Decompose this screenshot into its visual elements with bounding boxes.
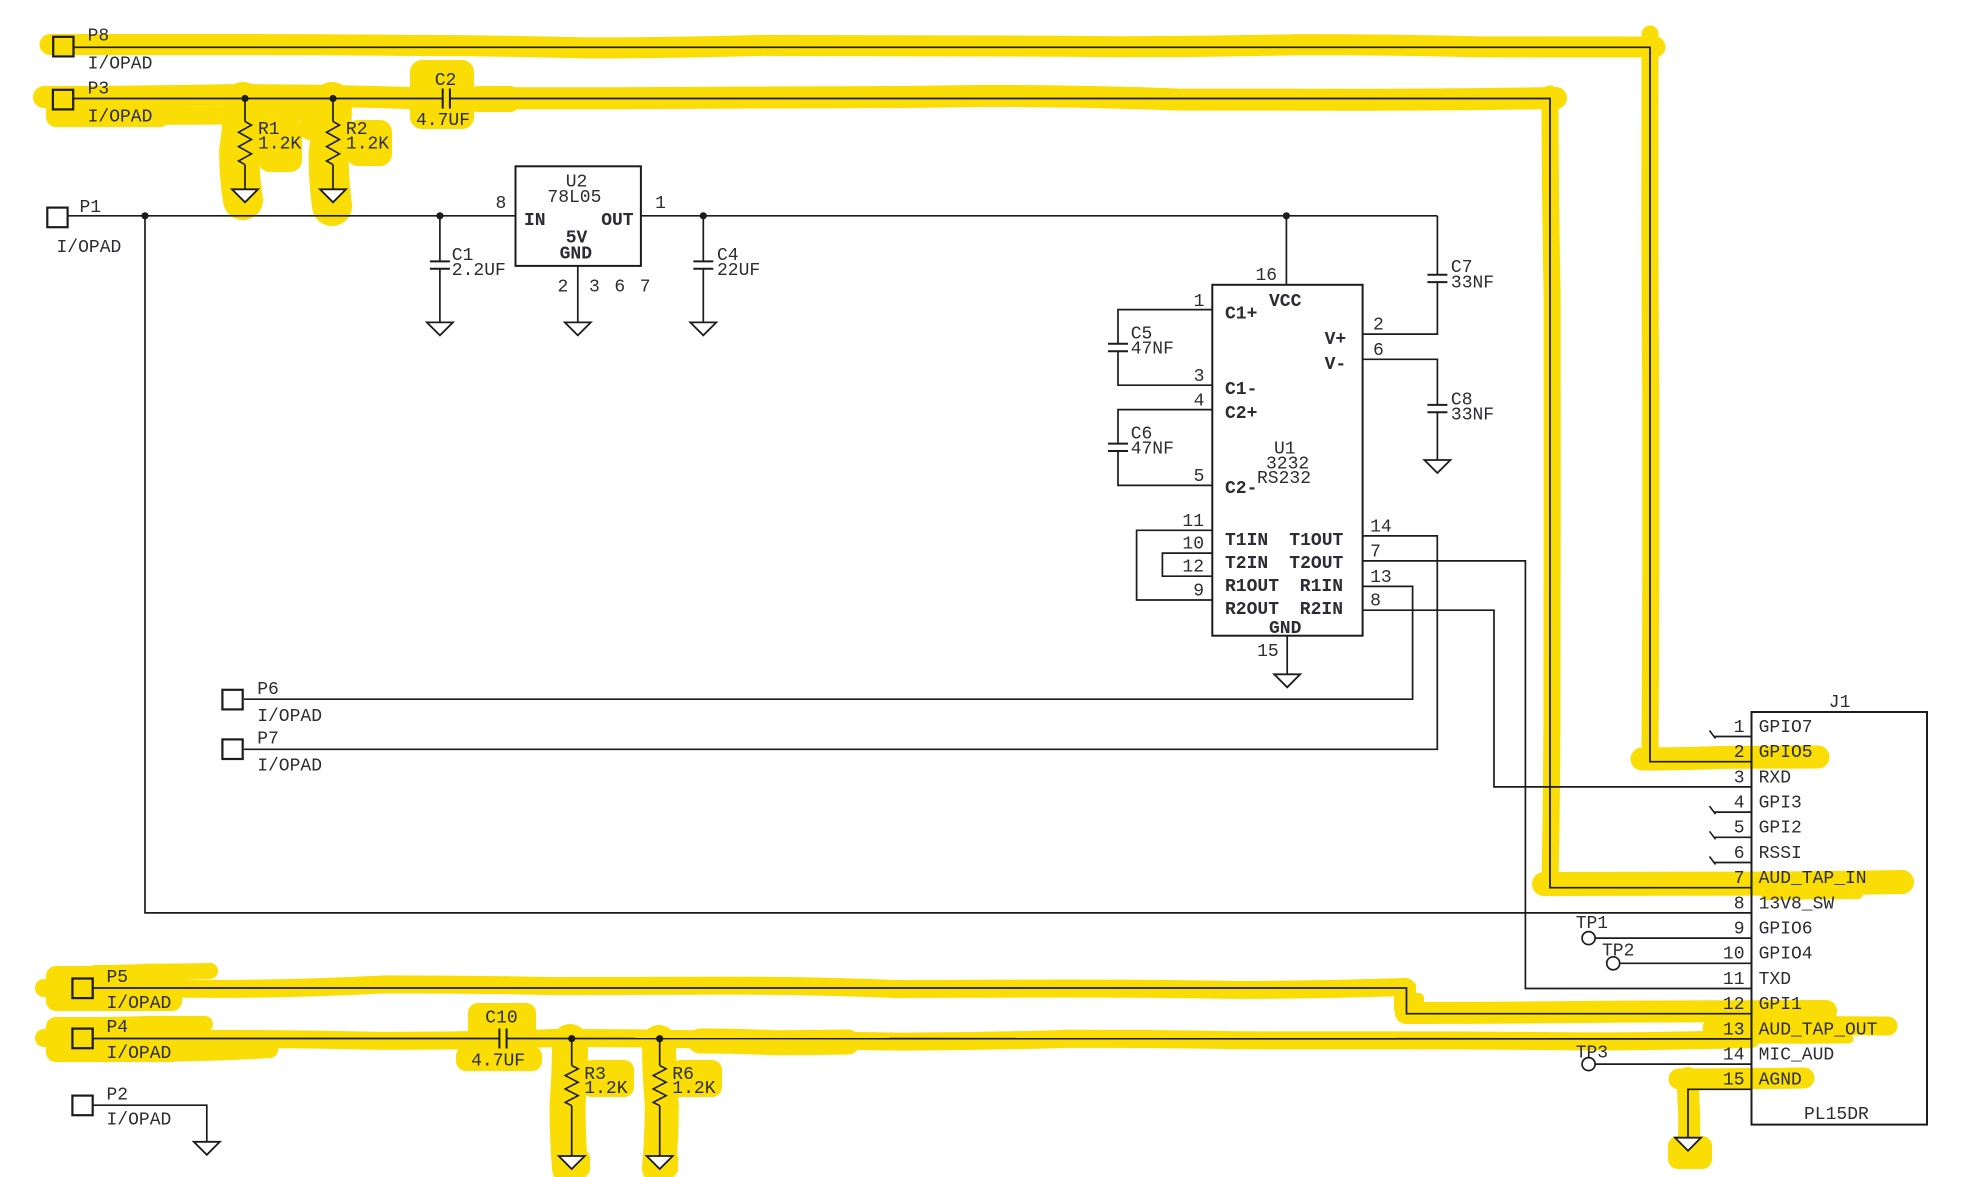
svg-text:P5: P5 (107, 968, 129, 988)
svg-text:I/OPAD: I/OPAD (88, 107, 153, 127)
svg-text:1.2K: 1.2K (346, 134, 389, 154)
svg-text:TP1: TP1 (1576, 914, 1608, 934)
svg-text:GPI1: GPI1 (1759, 995, 1802, 1015)
svg-text:47NF: 47NF (1131, 340, 1174, 360)
svg-text:R2IN: R2IN (1300, 600, 1343, 620)
svg-text:RS232: RS232 (1257, 469, 1311, 489)
svg-text:6: 6 (614, 277, 625, 297)
svg-text:OUT: OUT (601, 211, 634, 231)
svg-text:VCC: VCC (1269, 292, 1302, 312)
svg-text:RSSI: RSSI (1759, 844, 1802, 864)
svg-text:IN: IN (524, 211, 546, 231)
svg-text:10: 10 (1723, 945, 1745, 965)
svg-text:13: 13 (1723, 1020, 1745, 1040)
svg-text:C1+: C1+ (1225, 305, 1257, 325)
svg-text:1: 1 (655, 194, 666, 214)
svg-text:1.2K: 1.2K (672, 1079, 715, 1099)
svg-text:V+: V+ (1325, 330, 1347, 350)
svg-text:14: 14 (1723, 1046, 1745, 1066)
svg-text:C2+: C2+ (1225, 404, 1257, 424)
svg-text:12: 12 (1723, 995, 1745, 1015)
svg-text:P4: P4 (107, 1018, 129, 1038)
svg-text:1: 1 (1734, 718, 1745, 738)
svg-text:GND: GND (560, 245, 593, 265)
svg-text:C2: C2 (435, 71, 457, 91)
svg-text:I/OPAD: I/OPAD (107, 1111, 172, 1131)
svg-text:2: 2 (558, 277, 569, 297)
svg-text:I/OPAD: I/OPAD (107, 994, 172, 1014)
svg-text:15: 15 (1257, 642, 1279, 662)
svg-text:13V8_SW: 13V8_SW (1759, 894, 1835, 914)
svg-text:P3: P3 (88, 79, 110, 99)
svg-text:12: 12 (1182, 558, 1204, 578)
svg-text:GND: GND (1269, 619, 1302, 639)
svg-text:6: 6 (1373, 341, 1384, 361)
svg-text:47NF: 47NF (1131, 440, 1174, 460)
svg-text:GPI2: GPI2 (1759, 819, 1802, 839)
svg-text:GPIO6: GPIO6 (1759, 920, 1813, 940)
svg-text:4.7UF: 4.7UF (416, 111, 470, 131)
svg-text:R2OUT: R2OUT (1225, 600, 1279, 620)
svg-text:10: 10 (1182, 535, 1204, 555)
svg-text:11: 11 (1182, 512, 1204, 532)
svg-text:78L05: 78L05 (547, 188, 601, 208)
svg-text:8: 8 (1370, 592, 1381, 612)
svg-text:15: 15 (1723, 1071, 1745, 1091)
svg-text:AUD_TAP_IN: AUD_TAP_IN (1759, 869, 1867, 889)
svg-text:P7: P7 (257, 730, 279, 750)
svg-text:C1-: C1- (1225, 380, 1257, 400)
svg-text:AUD_TAP_OUT: AUD_TAP_OUT (1759, 1020, 1878, 1040)
svg-text:5: 5 (1194, 467, 1205, 487)
svg-text:7: 7 (640, 277, 651, 297)
svg-text:T1IN: T1IN (1225, 531, 1268, 551)
svg-text:C2-: C2- (1225, 479, 1257, 499)
svg-text:5: 5 (1734, 819, 1745, 839)
svg-text:11: 11 (1723, 970, 1745, 990)
svg-text:C10: C10 (485, 1009, 517, 1029)
svg-text:GPIO7: GPIO7 (1759, 718, 1813, 738)
svg-text:33NF: 33NF (1451, 273, 1494, 293)
svg-text:T2IN: T2IN (1225, 554, 1268, 574)
svg-text:22UF: 22UF (717, 261, 760, 281)
svg-text:2: 2 (1734, 743, 1745, 763)
svg-text:T1OUT: T1OUT (1289, 531, 1343, 551)
svg-text:GPIO5: GPIO5 (1759, 743, 1813, 763)
svg-text:R1OUT: R1OUT (1225, 577, 1279, 597)
svg-text:2: 2 (1373, 316, 1384, 336)
svg-text:RXD: RXD (1759, 768, 1791, 788)
svg-text:I/OPAD: I/OPAD (257, 707, 322, 727)
svg-text:AGND: AGND (1759, 1071, 1802, 1091)
svg-text:PL15DR: PL15DR (1804, 1105, 1869, 1125)
svg-text:3: 3 (589, 277, 600, 297)
svg-text:14: 14 (1370, 517, 1392, 537)
svg-text:I/OPAD: I/OPAD (107, 1044, 172, 1064)
svg-text:TXD: TXD (1759, 970, 1791, 990)
svg-text:I/OPAD: I/OPAD (257, 756, 322, 776)
svg-text:1.2K: 1.2K (584, 1079, 627, 1099)
svg-text:4: 4 (1734, 794, 1745, 814)
svg-text:16: 16 (1256, 266, 1278, 286)
svg-text:P6: P6 (257, 680, 279, 700)
svg-text:J1: J1 (1829, 693, 1851, 713)
svg-text:7: 7 (1734, 869, 1745, 889)
svg-text:1.2K: 1.2K (258, 134, 301, 154)
svg-text:TP3: TP3 (1576, 1044, 1608, 1064)
svg-text:P1: P1 (80, 198, 102, 218)
svg-text:33NF: 33NF (1451, 406, 1494, 426)
svg-text:3: 3 (1194, 367, 1205, 387)
svg-text:9: 9 (1193, 582, 1204, 602)
svg-text:7: 7 (1370, 542, 1381, 562)
svg-text:8: 8 (496, 194, 507, 214)
svg-text:R1IN: R1IN (1300, 577, 1343, 597)
svg-text:4: 4 (1194, 392, 1205, 412)
svg-text:1: 1 (1194, 292, 1205, 312)
svg-text:3: 3 (1734, 768, 1745, 788)
svg-text:P8: P8 (88, 26, 110, 46)
svg-text:TP2: TP2 (1602, 941, 1634, 961)
svg-text:6: 6 (1734, 844, 1745, 864)
svg-text:8: 8 (1734, 894, 1745, 914)
svg-text:9: 9 (1734, 920, 1745, 940)
svg-text:P2: P2 (107, 1085, 129, 1105)
svg-text:V-: V- (1325, 355, 1347, 375)
svg-text:GPIO4: GPIO4 (1759, 945, 1813, 965)
svg-text:4.7UF: 4.7UF (471, 1052, 525, 1072)
svg-text:GPI3: GPI3 (1759, 794, 1802, 814)
svg-text:I/OPAD: I/OPAD (57, 238, 122, 258)
svg-text:MIC_AUD: MIC_AUD (1759, 1046, 1835, 1066)
svg-text:2.2UF: 2.2UF (452, 261, 506, 281)
svg-text:T2OUT: T2OUT (1289, 554, 1343, 574)
svg-text:I/OPAD: I/OPAD (88, 54, 153, 74)
svg-text:13: 13 (1370, 568, 1392, 588)
